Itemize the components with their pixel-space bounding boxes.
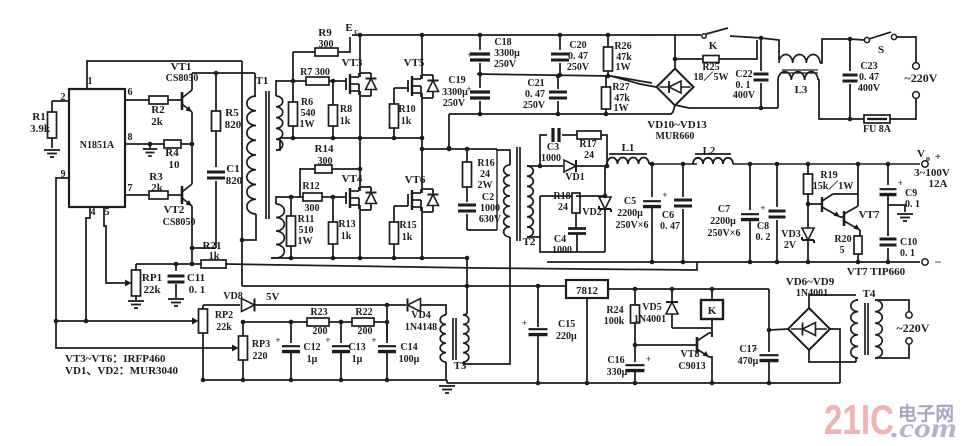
svg-text:300: 300	[319, 39, 334, 50]
svg-text:R9: R9	[318, 27, 332, 39]
svg-text:R27: R27	[612, 82, 629, 93]
svg-text:~220V: ~220V	[905, 71, 938, 85]
svg-text:VD2: VD2	[582, 207, 601, 218]
svg-text:250V×6: 250V×6	[616, 220, 649, 231]
svg-text:C3: C3	[547, 142, 559, 153]
svg-text:VD8: VD8	[223, 291, 242, 302]
svg-text:FU 8A: FU 8A	[863, 124, 892, 135]
svg-text:V: V	[917, 148, 925, 160]
svg-text:T1: T1	[256, 75, 269, 87]
svg-text:630V: 630V	[479, 214, 502, 225]
svg-text:2W: 2W	[478, 180, 493, 191]
svg-text:+: +	[935, 151, 941, 163]
svg-text:2V: 2V	[784, 240, 797, 251]
svg-text:3300μ: 3300μ	[494, 48, 520, 59]
svg-text:VT1: VT1	[171, 61, 192, 73]
svg-text:C22: C22	[735, 69, 752, 80]
svg-text:VT7 TIP660: VT7 TIP660	[847, 266, 906, 278]
svg-text:VT8: VT8	[681, 349, 700, 360]
svg-text:250V: 250V	[567, 62, 590, 73]
svg-text:2200μ: 2200μ	[617, 208, 643, 219]
svg-text:1μ: 1μ	[352, 354, 363, 365]
svg-text:300: 300	[318, 156, 333, 167]
svg-text:RP2: RP2	[215, 310, 233, 321]
svg-text:R15: R15	[399, 220, 416, 231]
svg-text:22k: 22k	[216, 322, 232, 333]
svg-text:C18: C18	[494, 37, 511, 48]
svg-text:1k: 1k	[402, 232, 413, 243]
svg-text:T3: T3	[454, 360, 467, 372]
svg-text:R4: R4	[165, 147, 179, 159]
svg-text:VD6~VD9: VD6~VD9	[786, 276, 835, 288]
svg-text:24: 24	[584, 150, 594, 161]
svg-text:0. 1: 0. 1	[905, 199, 920, 210]
svg-text:0. 2: 0. 2	[756, 232, 771, 243]
svg-text:1k: 1k	[340, 116, 351, 127]
svg-text:R2: R2	[151, 104, 165, 116]
svg-text:C2: C2	[482, 192, 494, 203]
svg-text:3.9k: 3.9k	[30, 123, 51, 135]
svg-text:C12: C12	[303, 342, 320, 353]
svg-text:R16: R16	[477, 158, 494, 169]
svg-text:+: +	[898, 178, 903, 188]
svg-text:+: +	[325, 335, 330, 345]
svg-text:12A: 12A	[929, 178, 948, 190]
svg-text:0. 47: 0. 47	[568, 51, 588, 62]
svg-text:0. 47: 0. 47	[660, 221, 680, 232]
svg-text:6: 6	[128, 87, 133, 98]
svg-text:VD10~VD13: VD10~VD13	[647, 119, 707, 131]
svg-text:400V: 400V	[858, 83, 881, 94]
svg-text:VT7: VT7	[859, 209, 880, 221]
svg-text:C6: C6	[662, 210, 674, 221]
svg-text:1000: 1000	[541, 153, 561, 164]
svg-text:0. 1: 0. 1	[189, 284, 206, 296]
svg-text:2: 2	[61, 92, 66, 103]
svg-text:R12: R12	[302, 181, 319, 192]
svg-text:1W: 1W	[298, 236, 313, 247]
svg-text:VT6: VT6	[405, 174, 426, 186]
svg-text:VD1: VD1	[565, 172, 584, 183]
svg-text:250V×6: 250V×6	[708, 228, 741, 239]
svg-text:MUR660: MUR660	[656, 131, 695, 142]
svg-text:R18: R18	[553, 191, 570, 202]
svg-text:VT3~VT6：IRFP460: VT3~VT6：IRFP460	[65, 353, 166, 365]
svg-text:510: 510	[299, 225, 314, 236]
svg-text:R19: R19	[820, 170, 837, 181]
svg-text:+: +	[467, 50, 472, 60]
svg-text:0. 1: 0. 1	[900, 248, 915, 259]
svg-text:250V: 250V	[494, 59, 517, 70]
svg-text:VT2: VT2	[164, 204, 185, 216]
svg-text:K: K	[708, 305, 717, 317]
svg-text:S: S	[878, 44, 884, 56]
svg-text:R11: R11	[298, 214, 315, 225]
svg-text:c: c	[354, 27, 358, 36]
svg-text:+: +	[522, 318, 527, 328]
svg-text:1k: 1k	[209, 251, 220, 262]
svg-text:22k: 22k	[143, 284, 161, 296]
svg-text:820: 820	[225, 119, 242, 131]
svg-text:3300μ: 3300μ	[442, 87, 468, 98]
svg-text:540: 540	[301, 108, 316, 119]
svg-text:330μ: 330μ	[607, 367, 628, 378]
svg-text:C9: C9	[905, 188, 917, 199]
svg-text:.com: .com	[891, 413, 957, 443]
svg-text:R24: R24	[606, 305, 623, 316]
svg-text:CS8050: CS8050	[166, 73, 199, 84]
svg-text:+: +	[646, 354, 651, 364]
svg-text:820: 820	[226, 175, 243, 187]
svg-text:C11: C11	[187, 272, 205, 284]
svg-text:220: 220	[253, 351, 268, 362]
svg-text:C15: C15	[558, 319, 575, 330]
svg-text:21IC: 21IC	[824, 396, 894, 443]
svg-text:RP3: RP3	[252, 339, 270, 350]
svg-text:1000: 1000	[552, 245, 572, 256]
svg-text:C10: C10	[900, 237, 917, 248]
svg-text:2200μ: 2200μ	[710, 216, 736, 227]
svg-text:R26: R26	[614, 41, 631, 52]
svg-text:N1851A: N1851A	[80, 140, 115, 151]
svg-text:0. 47: 0. 47	[525, 89, 545, 100]
svg-text:1: 1	[88, 76, 93, 87]
svg-text:C21: C21	[527, 78, 544, 89]
svg-text:220μ: 220μ	[556, 331, 577, 342]
svg-text:R7 300: R7 300	[300, 67, 330, 78]
svg-text:7812: 7812	[576, 285, 599, 297]
svg-text:1N4001: 1N4001	[634, 314, 666, 325]
svg-text:C9013: C9013	[678, 361, 705, 372]
svg-text:VD1、VD2：MUR3040: VD1、VD2：MUR3040	[65, 365, 179, 377]
svg-text:E: E	[345, 22, 352, 34]
svg-text:R17: R17	[579, 139, 596, 150]
svg-text:1N4148: 1N4148	[405, 322, 437, 333]
svg-text:100k: 100k	[604, 316, 625, 327]
svg-text:1W: 1W	[300, 119, 315, 130]
svg-text:R1: R1	[32, 111, 45, 123]
svg-text:C20: C20	[569, 40, 586, 51]
svg-text:5: 5	[840, 245, 845, 256]
svg-text:24: 24	[480, 169, 490, 180]
svg-text:VD3: VD3	[781, 229, 800, 240]
svg-text:1k: 1k	[401, 116, 412, 127]
svg-text:+: +	[275, 335, 280, 345]
svg-text:R5: R5	[225, 107, 239, 119]
svg-text:2k: 2k	[151, 182, 164, 194]
svg-text:C23: C23	[860, 61, 877, 72]
svg-text:L1: L1	[622, 142, 635, 154]
svg-text:8: 8	[128, 132, 133, 143]
svg-text:400V: 400V	[733, 90, 756, 101]
svg-text:C8: C8	[757, 221, 769, 232]
svg-text:C1: C1	[226, 163, 239, 175]
svg-text:+: +	[760, 203, 765, 213]
svg-text:300: 300	[305, 203, 320, 214]
svg-text:R23: R23	[310, 307, 327, 318]
svg-text:C5: C5	[624, 196, 636, 207]
svg-text:R10: R10	[398, 104, 415, 115]
svg-text:RP1: RP1	[142, 272, 162, 284]
svg-text:24: 24	[558, 202, 568, 213]
svg-text:T4: T4	[863, 288, 876, 300]
svg-text:4: 4	[91, 207, 96, 218]
svg-text:1k: 1k	[341, 231, 352, 242]
svg-text:1N4001: 1N4001	[796, 288, 828, 299]
svg-text:C14: C14	[400, 342, 417, 353]
svg-text:CS8050: CS8050	[163, 217, 196, 228]
svg-text:C19: C19	[448, 75, 465, 86]
svg-text:R13: R13	[338, 219, 355, 230]
svg-text:5V: 5V	[266, 291, 280, 303]
svg-text:C7: C7	[718, 204, 730, 215]
svg-text:C17: C17	[739, 344, 756, 355]
svg-text:1μ: 1μ	[307, 354, 318, 365]
svg-text:18／5W: 18／5W	[694, 70, 729, 83]
svg-text:R8: R8	[340, 104, 352, 115]
svg-text:100μ: 100μ	[399, 354, 420, 365]
svg-text:+: +	[662, 190, 667, 200]
svg-text:2k: 2k	[151, 116, 164, 128]
svg-text:200: 200	[358, 326, 373, 337]
svg-text:L2: L2	[703, 145, 716, 157]
svg-text:1W: 1W	[614, 103, 629, 114]
svg-text:~220V: ~220V	[897, 321, 930, 335]
svg-text:−: −	[935, 255, 942, 269]
svg-text:5: 5	[105, 207, 110, 218]
svg-text:R22: R22	[355, 307, 372, 318]
svg-text:250V: 250V	[443, 98, 466, 109]
svg-text:+: +	[466, 84, 471, 94]
svg-text:7: 7	[128, 183, 133, 194]
svg-text:VD4: VD4	[411, 310, 430, 321]
svg-text:C16: C16	[607, 355, 624, 366]
svg-text:0. 47: 0. 47	[859, 72, 879, 83]
svg-text:K: K	[709, 40, 718, 52]
svg-text:o: o	[926, 154, 930, 163]
svg-text:470μ: 470μ	[738, 356, 759, 367]
svg-text:L3: L3	[795, 84, 808, 96]
svg-text:R6: R6	[301, 97, 313, 108]
svg-text:VD5: VD5	[642, 302, 661, 313]
svg-text:R20: R20	[834, 234, 851, 245]
svg-text:R14: R14	[315, 143, 334, 155]
svg-text:+: +	[371, 335, 376, 345]
svg-text:15k／1W: 15k／1W	[813, 179, 854, 192]
svg-text:1W: 1W	[616, 62, 631, 73]
svg-text:10: 10	[169, 159, 181, 171]
svg-text:250V: 250V	[523, 100, 546, 111]
svg-text:C13: C13	[348, 342, 365, 353]
svg-text:C4: C4	[554, 234, 566, 245]
